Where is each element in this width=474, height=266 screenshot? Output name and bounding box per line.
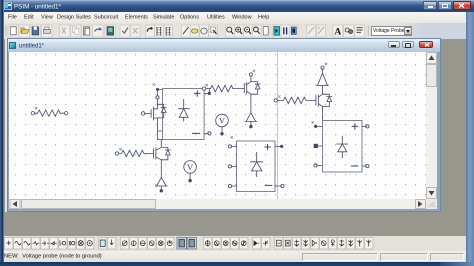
label BD3 plus [352,124,358,130]
voltage probe VP2 [183,161,196,182]
child buttons [388,41,400,48]
node BD2 minus output [275,184,284,187]
menu bar [4,12,467,23]
v scrollbar [426,52,437,209]
wire Q2 emitter down [249,94,251,112]
wire Q1 drain to BD1 top-left [156,88,162,96]
wire Q3 emitter down [160,160,162,177]
window borders [0,0,4,266]
svg-text:V: V [187,162,194,172]
wire Q3 collector to BD1 bottom [160,140,162,148]
resistor R1 [31,107,68,116]
child window [5,38,8,212]
label BD3 origin mark [311,121,313,123]
wire Q4 emitter to BD3 top [321,107,323,121]
separator [367,26,369,37]
dropdown Voltage Probe [371,26,412,36]
draw group [182,25,191,37]
child titlebar [8,39,440,52]
voltage probe VP1 [215,114,228,135]
group 6 [253,238,270,250]
check group [120,25,130,37]
MDI background [4,39,466,236]
toolbar row [4,23,467,39]
node BD1 minus output [204,132,211,135]
edit group [60,25,71,37]
group 4: pressed pair [177,238,196,250]
svg-text:A: A [334,28,341,38]
MOSFET Q1 [141,84,166,120]
resistor R3 [115,148,153,156]
node BD1 plus output [204,89,210,95]
group 2 [99,238,116,250]
label BD1 plus [194,91,200,97]
diode BD1 internal symbol [178,99,189,121]
bottom toolbar [4,236,466,251]
label BD2 minus [265,184,272,186]
sim group [272,25,281,37]
slanted pair [307,25,316,37]
diode bridge BD1 [162,89,204,140]
IGBT Q2 [244,70,260,94]
IGBT Q3 [153,147,170,159]
text group [333,25,343,37]
label BD2 origin mark [230,136,232,138]
label BD2 plus [264,144,270,150]
resistor R4 [274,96,316,104]
label BD3 minus [351,165,358,167]
diode bridge BD3 [322,120,362,172]
resistor R2 [205,85,244,91]
wire Q4 collector up [321,85,323,94]
group 7 [275,238,373,250]
group 1: sources [5,238,94,250]
group 3 [121,238,174,250]
zoom group [226,25,235,37]
file group [8,25,19,37]
ground G2 below Q3 [155,177,167,192]
canvas [9,52,427,199]
IGBT Q4 [315,94,331,106]
wire Q1 source down to BD1 lower-left [157,118,161,140]
group 5 [204,238,248,250]
ground G1 below Q2 [244,113,256,128]
svg-text:V: V [218,116,225,126]
node BD2 input 1 [228,145,236,148]
rotate group [146,25,155,37]
label BD1 minus [192,132,199,134]
diode BD3 internal symbol [336,136,347,158]
window buttons [423,1,437,10]
node BD3 plus output [362,125,369,128]
ground G3 above Q4 [316,63,328,85]
node BD1 top-right junction [202,84,207,90]
diode BD2 internal symbol [250,152,262,176]
node BD3 minus output [362,164,369,167]
node Q1 drain terminal [155,96,158,99]
node BD3 input 2 [313,144,322,148]
node BD2 input 3 [228,184,236,187]
node BD3 input 1 [314,125,322,127]
node BD3 input 3 [313,164,322,167]
node Q2 collector terminal [249,73,252,76]
status bar [4,251,466,262]
diode bridge BD2 [236,141,275,192]
node BD2 plus output [275,145,283,147]
main title bar [0,0,474,12]
h scrollbar [9,199,427,209]
node BD2 input 2 [228,165,236,168]
